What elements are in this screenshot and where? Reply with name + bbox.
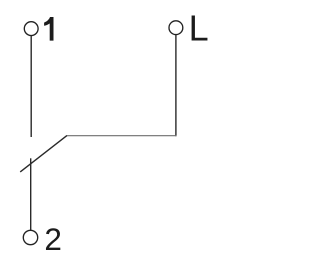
wire to terminal 2 [30, 158, 32, 230]
switch blade (movable contact) [20, 136, 67, 172]
terminal 2 circle [23, 230, 37, 244]
svg-text:L: L [189, 8, 209, 49]
wire from terminal L down [175, 35, 177, 136]
label 1 [44, 17, 53, 41]
wire from terminal 1 down [30, 36, 32, 137]
two-way switch S1 schematic [0, 0, 228, 267]
svg-text:2: 2 [44, 221, 62, 257]
horizontal wire to switch blade [66, 135, 176, 137]
terminal 1 circle [24, 22, 38, 36]
terminal L circle [169, 21, 183, 35]
